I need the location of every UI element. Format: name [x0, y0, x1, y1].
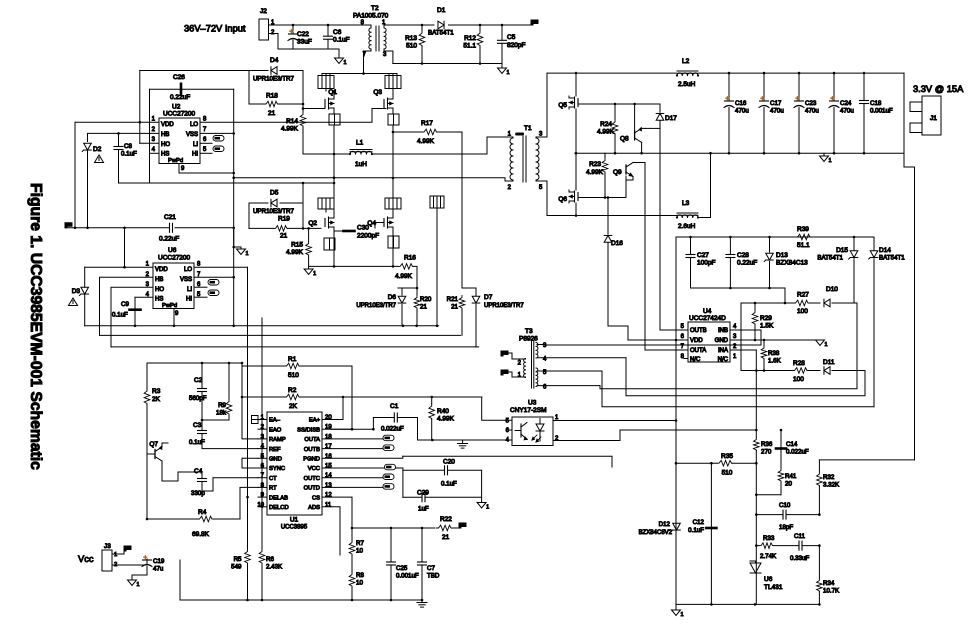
- ground U6: [237, 249, 246, 255]
- svg-text:R5: R5: [234, 556, 242, 563]
- svg-text:Q5: Q5: [558, 102, 567, 109]
- net oval U6 LI: [194, 286, 207, 288]
- svg-text:R4: R4: [198, 509, 207, 516]
- package Q4 aux: [430, 196, 444, 208]
- svg-text:EA+: EA+: [309, 418, 321, 424]
- svg-text:DELAB: DELAB: [269, 495, 288, 501]
- wire CS ADS: [331, 497, 352, 528]
- wire U4 INA: [730, 349, 756, 351]
- svg-text:C28: C28: [737, 252, 749, 259]
- svg-text:C14: C14: [786, 441, 798, 448]
- svg-text:R16: R16: [404, 255, 416, 262]
- svg-text:1: 1: [825, 342, 828, 348]
- wire cross couple D10 return: [600, 303, 857, 389]
- svg-text:D14: D14: [879, 247, 891, 254]
- svg-text:R8: R8: [356, 572, 364, 579]
- svg-text:UCC27200: UCC27200: [158, 255, 191, 262]
- wire SYNC GND: [242, 457, 258, 459]
- wire T3 pin3: [537, 344, 546, 346]
- svg-text:510: 510: [722, 470, 733, 477]
- svg-text:R12: R12: [464, 35, 476, 42]
- svg-text:C26: C26: [173, 74, 185, 81]
- svg-text:C21: C21: [164, 214, 176, 221]
- package Q1 lower: [329, 114, 340, 125]
- svg-text:0.1uF: 0.1uF: [189, 439, 205, 446]
- wire L3 up: [698, 153, 711, 217]
- svg-text:HB: HB: [155, 277, 163, 283]
- svg-text:HO: HO: [155, 287, 164, 293]
- wire Q6 drain: [575, 153, 577, 190]
- svg-text:HB: HB: [161, 132, 169, 138]
- svg-text:560pF: 560pF: [189, 395, 207, 402]
- svg-text:C27: C27: [697, 252, 709, 259]
- svg-text:UPR10E3/TR7: UPR10E3/TR7: [253, 208, 294, 215]
- svg-text:P8926: P8926: [519, 336, 538, 343]
- net flag GB: [65, 223, 72, 228]
- wire T3 pin2 flag: [501, 351, 508, 356]
- wire U2 outer box: [150, 88, 234, 90]
- svg-text:UPR10E3/TR7: UPR10E3/TR7: [356, 303, 396, 309]
- svg-text:1: 1: [114, 552, 117, 558]
- ground snubber: [498, 68, 507, 74]
- svg-text:D16: D16: [611, 240, 623, 247]
- svg-text:R38: R38: [768, 350, 780, 357]
- svg-text:D3: D3: [72, 288, 81, 295]
- ground input: [335, 58, 344, 64]
- svg-text:C24: C24: [840, 100, 852, 107]
- svg-text:100: 100: [797, 308, 808, 315]
- wire to ground U6: [233, 228, 235, 326]
- svg-text:U3: U3: [528, 400, 537, 407]
- svg-text:HO: HO: [161, 142, 170, 148]
- svg-text:69.8K: 69.8K: [192, 531, 210, 538]
- svg-text:1: 1: [344, 60, 347, 66]
- wire EA+ SS: [331, 397, 343, 420]
- wire HO boot rail: [140, 70, 249, 72]
- svg-text:DELCD: DELCD: [269, 505, 289, 511]
- svg-text:20: 20: [325, 415, 332, 421]
- svg-text:OUTB: OUTB: [690, 328, 707, 334]
- svg-text:U6: U6: [764, 576, 773, 583]
- svg-text:2K: 2K: [289, 403, 298, 410]
- svg-text:OUTA: OUTA: [690, 348, 706, 354]
- svg-text:16: 16: [325, 454, 332, 460]
- svg-text:OUTB: OUTB: [304, 447, 320, 453]
- svg-text:BAT54T1: BAT54T1: [817, 255, 843, 262]
- wire cross couple D14 return: [602, 371, 874, 407]
- svg-text:HS: HS: [155, 297, 163, 303]
- wire Q1 gate: [303, 108, 325, 110]
- svg-text:270: 270: [761, 449, 772, 456]
- wire R36 R41 join: [756, 463, 781, 495]
- package Q4 lower: [388, 236, 399, 248]
- svg-text:11: 11: [325, 502, 332, 508]
- svg-text:2200pF: 2200pF: [357, 233, 379, 240]
- package Q2 upper: [318, 198, 334, 209]
- svg-text:21: 21: [451, 304, 458, 311]
- package Q3 upper: [385, 76, 401, 89]
- svg-text:R3: R3: [152, 388, 161, 395]
- svg-text:R15: R15: [291, 242, 303, 249]
- wire right column: [819, 459, 914, 461]
- svg-text:VSS: VSS: [186, 132, 198, 138]
- svg-text:21: 21: [280, 233, 288, 240]
- svg-text:R40: R40: [437, 408, 449, 415]
- svg-text:10: 10: [356, 548, 363, 555]
- svg-text:Vcc: Vcc: [78, 554, 94, 564]
- wire U6 HB: [100, 277, 154, 335]
- net flag J3: [112, 551, 124, 554]
- svg-text:1: 1: [486, 505, 489, 511]
- ground U1 rail: [421, 600, 423, 603]
- svg-text:51.1: 51.1: [463, 43, 476, 50]
- svg-text:C1: C1: [390, 403, 399, 410]
- svg-text:TL431: TL431: [764, 584, 783, 591]
- svg-text:R1: R1: [288, 356, 297, 363]
- svg-text:20: 20: [785, 481, 792, 488]
- svg-text:SYNC: SYNC: [269, 466, 285, 472]
- svg-text:EAO: EAO: [269, 427, 282, 433]
- svg-text:CT: CT: [269, 476, 277, 482]
- wire input-: [269, 34, 340, 59]
- svg-text:U1: U1: [290, 517, 299, 524]
- svg-text:470u: 470u: [805, 108, 819, 115]
- net oval U2 HI: [200, 152, 212, 154]
- svg-text:Q8: Q8: [620, 136, 629, 143]
- svg-text:CNY17-2SM: CNY17-2SM: [510, 407, 546, 414]
- svg-text:12: 12: [325, 493, 332, 499]
- svg-text:U6: U6: [168, 247, 177, 254]
- svg-text:100pF: 100pF: [697, 260, 715, 267]
- svg-text:D10: D10: [826, 286, 838, 293]
- wire U3 pin5 from R2 row: [482, 397, 512, 420]
- svg-text:36V‒72V Input: 36V‒72V Input: [184, 24, 246, 34]
- wire x676 vertical: [675, 237, 677, 604]
- svg-text:VDD: VDD: [690, 338, 703, 344]
- ground U4: [816, 340, 825, 346]
- wire secondary top rail: [547, 72, 676, 74]
- wire C1 ground row: [418, 418, 513, 441]
- svg-text:D6: D6: [388, 294, 397, 301]
- wire T3 pin4: [537, 357, 626, 359]
- wire RAMP: [242, 366, 258, 439]
- svg-text:azzvc: azzvc: [516, 132, 525, 136]
- wire U6 VDD: [125, 228, 154, 267]
- wire Q5 gate row: [578, 103, 660, 105]
- wire input+ rail: [269, 24, 367, 26]
- ground C19: [128, 580, 137, 586]
- svg-text:Q1: Q1: [328, 89, 337, 96]
- svg-text:D1: D1: [437, 7, 446, 14]
- svg-text:15: 15: [325, 464, 332, 470]
- ground R15: [308, 266, 310, 269]
- svg-text:510: 510: [406, 43, 417, 50]
- wire U2 LO: [200, 109, 386, 123]
- svg-text:R19: R19: [278, 216, 290, 223]
- wire gate clamp D6 R20: [398, 287, 417, 289]
- svg-text:4.99K: 4.99K: [437, 416, 455, 423]
- wire C21 row: [65, 227, 169, 229]
- svg-text:2.6uH: 2.6uH: [678, 223, 696, 230]
- zener D13 BZX84C13: [769, 237, 771, 252]
- svg-text:GND: GND: [269, 457, 282, 463]
- wire U3 pin2: [553, 430, 756, 441]
- svg-text:R36: R36: [761, 441, 773, 448]
- svg-text:R41: R41: [785, 473, 797, 480]
- svg-text:21: 21: [442, 534, 450, 541]
- svg-text:C8: C8: [124, 143, 132, 150]
- svg-text:LO: LO: [184, 267, 192, 273]
- svg-text:10.7K: 10.7K: [823, 588, 840, 595]
- svg-text:510: 510: [288, 372, 299, 379]
- package Q2 lower: [324, 238, 335, 250]
- svg-text:HI: HI: [192, 152, 198, 158]
- svg-text:HS: HS: [161, 152, 169, 158]
- svg-text:4.99K: 4.99K: [286, 249, 304, 256]
- svg-text:D7: D7: [484, 294, 493, 301]
- wire U4 INB: [546, 330, 761, 345]
- svg-text:Q7: Q7: [149, 441, 158, 448]
- capacitor C27 100pF: [690, 237, 692, 254]
- svg-text:2.74K: 2.74K: [760, 553, 777, 560]
- svg-text:PGND: PGND: [303, 457, 320, 463]
- svg-text:R28: R28: [793, 360, 805, 367]
- svg-text:R29: R29: [760, 315, 772, 322]
- wire snub return: [691, 288, 786, 303]
- svg-text:VSS: VSS: [180, 277, 192, 283]
- svg-text:RAMP: RAMP: [269, 437, 286, 443]
- svg-text:N/C: N/C: [690, 357, 701, 363]
- svg-text:R17: R17: [421, 120, 433, 127]
- svg-text:0.1uF: 0.1uF: [688, 527, 704, 534]
- svg-text:470u: 470u: [735, 108, 749, 115]
- wire U6 HO HS: [111, 287, 153, 347]
- svg-text:EA–: EA–: [269, 418, 281, 424]
- wire L1 to T1: [487, 137, 509, 154]
- wire mid rail y183: [119, 182, 335, 184]
- svg-text:T2: T2: [371, 5, 379, 12]
- svg-text:4.99K: 4.99K: [586, 169, 604, 176]
- svg-text:D11: D11: [823, 359, 835, 366]
- wire OUTA OUTB flags: [331, 438, 383, 440]
- svg-text:C11: C11: [794, 533, 805, 540]
- svg-text:17: 17: [325, 444, 332, 450]
- wire U4 GND: [730, 339, 820, 341]
- net flag VIN: [531, 20, 538, 25]
- svg-text:R39: R39: [797, 226, 809, 233]
- svg-text:R20: R20: [420, 296, 432, 303]
- svg-text:C3: C3: [193, 422, 202, 429]
- svg-text:R35: R35: [721, 453, 733, 460]
- svg-text:REF: REF: [269, 447, 281, 453]
- svg-text:T3: T3: [525, 328, 533, 335]
- wire bottom rail / R16: [309, 265, 398, 267]
- svg-text:0.1uF: 0.1uF: [441, 481, 457, 488]
- wire Q9 down: [644, 163, 646, 351]
- wire EA bracket: [252, 416, 259, 424]
- capacitor C6: [327, 25, 329, 36]
- wire Q4 gate: [375, 223, 384, 229]
- wire U2 pin9: [179, 164, 234, 174]
- svg-text:D12: D12: [659, 521, 671, 528]
- svg-text:L1: L1: [356, 140, 364, 147]
- svg-text:BZX84C13: BZX84C13: [776, 260, 808, 267]
- svg-text:CS: CS: [312, 495, 320, 501]
- svg-text:0.1uF: 0.1uF: [112, 312, 128, 319]
- svg-text:C22: C22: [297, 31, 309, 38]
- svg-text:470u: 470u: [840, 108, 854, 115]
- wire gate rails: [85, 325, 439, 327]
- svg-text:0.1uF: 0.1uF: [333, 37, 350, 44]
- svg-text:L2: L2: [682, 58, 690, 65]
- svg-text:HI: HI: [186, 297, 192, 303]
- svg-text:SS/DISB: SS/DISB: [297, 427, 320, 433]
- svg-text:C25: C25: [396, 565, 408, 572]
- svg-text:UPR10E3/TR7: UPR10E3/TR7: [484, 303, 524, 309]
- wire DELAB DELCD: [246, 496, 249, 499]
- wire T3 pin5: [537, 370, 602, 372]
- svg-text:0.001uF: 0.001uF: [870, 108, 893, 115]
- wire R35 row: [676, 462, 717, 464]
- svg-text:2.5uH: 2.5uH: [678, 81, 696, 88]
- svg-text:1: 1: [137, 582, 140, 588]
- svg-text:1uH: 1uH: [355, 161, 367, 168]
- svg-text:0.22uF: 0.22uF: [170, 94, 190, 101]
- svg-text:Q6: Q6: [558, 196, 567, 203]
- svg-text:100: 100: [793, 376, 804, 383]
- wire T3 pin6: [537, 385, 600, 387]
- svg-text:INB: INB: [718, 328, 728, 334]
- svg-text:INA: INA: [718, 348, 728, 354]
- svg-text:C29: C29: [417, 490, 429, 497]
- svg-text:R24: R24: [600, 121, 612, 128]
- svg-text:820pF: 820pF: [507, 42, 525, 49]
- svg-text:19: 19: [325, 425, 332, 431]
- svg-text:R21: R21: [447, 296, 459, 303]
- wire cross couple D11 return: [626, 358, 865, 396]
- svg-text:C2: C2: [194, 377, 203, 384]
- wire U2 HB: [88, 133, 160, 141]
- svg-text:C9: C9: [121, 301, 129, 308]
- svg-text:C12: C12: [693, 519, 705, 526]
- svg-text:4.99K: 4.99K: [395, 273, 413, 280]
- svg-text:T1: T1: [524, 125, 532, 132]
- capacitor C30 2200pF: [334, 230, 344, 232]
- svg-text:LI: LI: [187, 287, 192, 293]
- svg-text:ADS: ADS: [308, 505, 320, 511]
- svg-text:UCC27200: UCC27200: [163, 111, 196, 118]
- svg-text:D15: D15: [836, 247, 848, 254]
- svg-text:D13: D13: [776, 252, 788, 259]
- svg-text:C18: C18: [870, 100, 882, 107]
- svg-text:U2: U2: [172, 104, 181, 111]
- svg-text:J2: J2: [260, 8, 267, 15]
- wire U2 VSS: [200, 132, 234, 134]
- svg-text:18k: 18k: [216, 410, 227, 417]
- wire U6 VSS LO: [194, 266, 248, 268]
- svg-text:1: 1: [681, 612, 684, 618]
- svg-text:C10: C10: [779, 502, 791, 509]
- svg-text:PwPd: PwPd: [162, 303, 177, 309]
- svg-text:VDD: VDD: [155, 267, 168, 273]
- svg-text:C19: C19: [153, 558, 165, 565]
- svg-text:PwPd: PwPd: [168, 158, 183, 164]
- svg-text:C23: C23: [805, 100, 817, 107]
- svg-text:N/C: N/C: [718, 357, 729, 363]
- wire gate clamp R21 D7: [462, 287, 476, 289]
- wire bridge top rail: [322, 73, 397, 75]
- svg-text:0.22uF: 0.22uF: [159, 236, 179, 243]
- svg-text:VCC: VCC: [308, 466, 320, 472]
- svg-text:1: 1: [313, 271, 316, 277]
- svg-text:4.99K: 4.99K: [281, 126, 299, 133]
- svg-text:21: 21: [268, 110, 276, 117]
- svg-text:14: 14: [325, 473, 332, 479]
- svg-text:UCC27424D: UCC27424D: [689, 315, 726, 322]
- svg-text:UCC3895: UCC3895: [281, 525, 308, 531]
- svg-text:D2: D2: [93, 146, 102, 153]
- svg-text:51.1: 51.1: [797, 242, 810, 249]
- svg-text:0.1uF: 0.1uF: [121, 151, 137, 158]
- wire OUTC OUTD flags: [331, 477, 383, 479]
- wire mid output return rail: [575, 152, 904, 154]
- svg-text:R6: R6: [266, 556, 274, 563]
- svg-text:BAT54T1: BAT54T1: [879, 255, 905, 262]
- svg-text:21: 21: [420, 304, 427, 311]
- svg-text:C7: C7: [427, 565, 435, 572]
- svg-text:1.6K: 1.6K: [768, 358, 782, 365]
- svg-text:LI: LI: [193, 142, 198, 148]
- svg-text:R27: R27: [797, 292, 809, 299]
- wire bottom fb rail: [676, 603, 818, 605]
- net oval U2 LI: [200, 142, 212, 144]
- package Q4 upper: [385, 198, 401, 209]
- svg-text:OUTA: OUTA: [304, 437, 320, 443]
- svg-text:C17: C17: [770, 100, 782, 107]
- svg-text:J1: J1: [930, 115, 937, 122]
- wire R3 top: [147, 362, 242, 364]
- ground R40: [458, 443, 468, 445]
- svg-text:Q2: Q2: [308, 220, 317, 227]
- svg-text:33uF: 33uF: [297, 39, 312, 46]
- ground main: [675, 604, 677, 610]
- wire U4 pins left: [660, 329, 688, 331]
- svg-text:RT: RT: [269, 486, 277, 492]
- svg-text:0.001uF: 0.001uF: [396, 573, 419, 580]
- svg-text:L3: L3: [682, 200, 690, 207]
- capacitor C28 0.22uF: [729, 237, 731, 254]
- svg-text:R7: R7: [356, 540, 364, 547]
- svg-text:47u: 47u: [153, 566, 164, 573]
- svg-text:R23: R23: [589, 161, 601, 168]
- IC U1 UCC3895: [267, 412, 322, 515]
- svg-text:C6: C6: [333, 29, 342, 36]
- svg-text:1: 1: [507, 70, 510, 76]
- svg-text:1: 1: [246, 251, 249, 257]
- svg-text:1: 1: [829, 158, 832, 164]
- svg-text:PA1005.070: PA1005.070: [353, 13, 389, 20]
- svg-text:0.022uF: 0.022uF: [381, 426, 404, 433]
- svg-text:C16: C16: [735, 100, 747, 107]
- capacitor C19 47u: [112, 559, 147, 565]
- wire T3 pin1 flag: [501, 370, 508, 375]
- svg-text:0.22uF: 0.22uF: [737, 260, 757, 267]
- wire T1 pin3 up: [546, 73, 548, 137]
- ground C20: [481, 470, 483, 502]
- wire D17 down: [659, 128, 661, 330]
- capacitor C12 0.1uF: [710, 463, 712, 604]
- wire R33 C11 row: [756, 545, 759, 547]
